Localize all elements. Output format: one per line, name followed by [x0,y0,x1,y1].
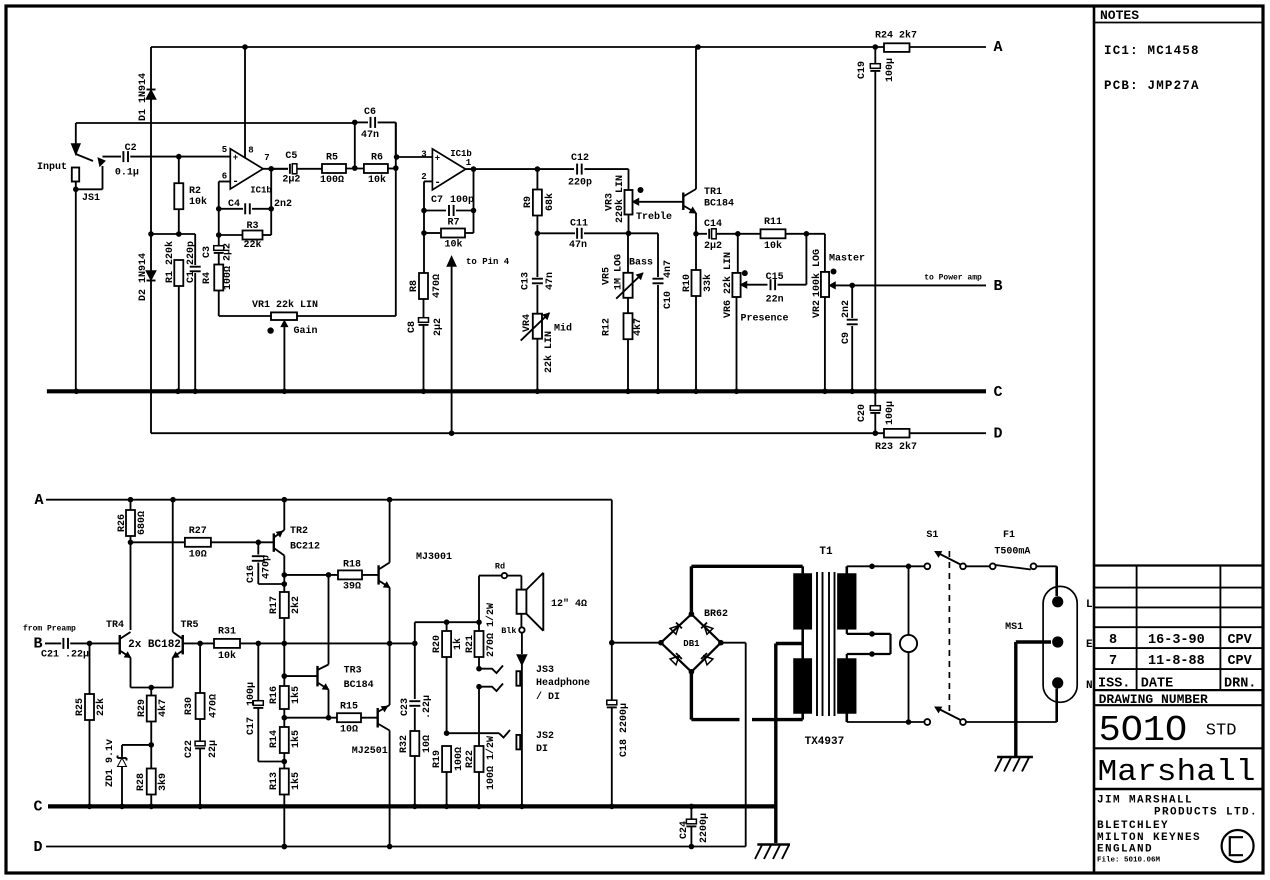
row R18 driver [284,572,338,578]
svg-text:R1 220k: R1 220k [164,241,176,283]
svg-text:47n: 47n [569,240,587,251]
svg-text:TX4937: TX4937 [805,736,845,748]
riser to speaker row [415,619,482,643]
svg-text:C23: C23 [400,698,411,716]
wire bridge right to rail D [718,640,746,847]
svg-text:NOTES: NOTES [1100,8,1139,23]
capacitor C15 22n [766,234,807,306]
svg-text:10k: 10k [764,240,782,252]
svg-text:S1: S1 [926,530,938,541]
svg-text:TR4: TR4 [106,620,124,631]
secondary centre tap to ground [776,644,803,844]
svg-text:VR5: VR5 [602,267,613,285]
revision header row [1098,677,1256,692]
svg-text:10k: 10k [444,239,462,251]
capacitor C18 2200u [607,500,630,807]
svg-text:R6: R6 [371,153,383,164]
connector Blk [501,614,524,654]
wire bridge left [612,640,664,646]
wire VR1 right to R6 node [297,122,396,316]
svg-text:100Ω: 100Ω [320,175,344,186]
svg-text:CPV: CPV [1227,633,1252,648]
svg-text:R24 2k7: R24 2k7 [875,30,917,42]
svg-text:.22μ: .22μ [422,695,433,719]
svg-text:8: 8 [1109,633,1117,648]
wire op-amp1 output [263,166,288,172]
potentiometer VR3 220k LIN treble [604,175,684,223]
svg-text:R5: R5 [326,153,338,164]
svg-text:BLETCHLEY: BLETCHLEY [1097,820,1169,832]
emitter join TR4 TR5 [131,685,173,691]
svg-text:R32: R32 [399,735,410,753]
svg-text:2μ2: 2μ2 [433,318,444,336]
svg-text:2μ2: 2μ2 [704,241,722,252]
svg-text:22k: 22k [243,239,261,251]
svg-text:47n: 47n [545,272,556,290]
capacitor C21 .22u [41,638,120,661]
potentiometer VR1 22k LIN gain [252,299,318,391]
svg-text:D: D [33,839,42,856]
svg-text:68k: 68k [544,193,556,211]
rail D upper [151,426,1003,443]
capacitor C7 100p [424,195,474,216]
svg-text:PCB: JMP27A: PCB: JMP27A [1104,79,1200,93]
svg-text:ZD1 9.1v: ZD1 9.1v [105,739,116,787]
svg-text:33k: 33k [702,274,714,292]
svg-text:C9: C9 [841,332,852,344]
svg-text:5O1O: 5O1O [1099,710,1188,751]
title column divider [1093,6,1096,873]
svg-text:C14: C14 [704,219,722,230]
junction dots rail A [242,44,878,50]
svg-text:to Pin 4: to Pin 4 [466,257,510,267]
row JS2 DI [444,730,510,738]
pilot lamp [900,566,917,722]
row R15 [284,715,337,721]
svg-text:Marshall: Marshall [1098,755,1256,790]
transformer T1 label [819,546,833,558]
capacitor C11 47n [569,219,658,252]
resistor R21 270R half watt [465,603,497,669]
input jack JS1 [72,123,105,192]
notes box [1094,8,1263,23]
resistor R29 4k7 [137,688,169,748]
potentiometer VR6 22k LIN presence [722,234,788,391]
svg-text:VR1 22k LIN: VR1 22k LIN [252,299,318,311]
svg-text:4k7: 4k7 [157,699,169,717]
svg-text:R3: R3 [246,221,258,232]
resistor R25 22k [75,643,107,806]
ground symbol centre tap [755,845,790,860]
JS3 contact 2 [476,684,503,692]
capacitor C13 47n [521,233,556,313]
svg-text:R4: R4 [202,272,213,284]
svg-text:C21: C21 [41,650,59,661]
wire C12 to VR3 [584,169,628,190]
svg-text:R22: R22 [465,750,476,768]
svg-text:C16: C16 [246,565,257,583]
svg-text:TR3: TR3 [344,666,362,677]
resistor R12 4k7 [602,298,645,392]
svg-text:STD: STD [1206,722,1237,741]
op-amp IC1a [222,145,272,196]
diode D1 1N914 [138,73,155,121]
resistor R31 10k [214,627,284,663]
wire pin8 to rail A [244,47,246,158]
svg-text:C17: C17 [246,717,257,735]
svg-text:C6: C6 [364,107,376,118]
rail A lower [34,492,611,509]
arrow to pin 4 [448,257,510,433]
svg-text:+: + [233,153,238,163]
svg-text:DATE: DATE [1141,677,1173,692]
capacitor C24 2200u [679,806,710,846]
transistor TR3 BC184 [284,665,373,718]
wire output feedback riser [471,169,477,233]
svg-text:MILTON KEYNES: MILTON KEYNES [1097,832,1201,844]
zener ZD1 9.1v [105,739,151,806]
svg-text:22k: 22k [95,698,107,716]
svg-text:R2: R2 [189,186,201,197]
svg-text:R27: R27 [189,526,207,537]
svg-text:R31: R31 [218,627,236,638]
capacitor C16 470p [246,542,287,587]
capacitor C8 2u2 [407,318,444,392]
transformer T1 secondary windings [794,566,811,719]
wire input top link [76,122,355,124]
revision row 7 [1109,654,1253,669]
wire pin6 feedback left [216,182,230,247]
svg-text:5: 5 [222,145,227,155]
resistor R30 470R [184,643,220,741]
capacitor C14 2u2 [704,219,761,252]
label TX4937 [805,736,845,748]
wire R4 to VR1 [219,315,271,317]
capacitor C17 100u [246,682,284,762]
primary top wire [847,564,925,570]
svg-text:C11: C11 [570,219,588,230]
svg-text:100Ω: 100Ω [454,747,465,771]
svg-text:C: C [993,384,1002,401]
resistor R3 22k [219,221,271,251]
resistor R26 680R [117,500,148,543]
resistor R8 470R [409,273,443,318]
svg-text:T500mA: T500mA [994,547,1030,558]
resistor R27 10R [131,526,274,561]
svg-text:C13: C13 [521,272,532,290]
svg-text:BC184: BC184 [704,199,734,210]
wire +in IC1b [394,154,433,160]
svg-text:C8: C8 [407,321,418,333]
svg-text:Master: Master [829,254,865,265]
svg-text:.22μ: .22μ [65,650,89,661]
svg-text:JS2: JS2 [536,731,554,742]
svg-text:D: D [993,426,1002,443]
capacitor C6 47n [355,107,396,157]
svg-text:Bass: Bass [629,258,653,269]
svg-text:D2 1N914: D2 1N914 [138,253,149,301]
transistor MJ3001 [379,500,452,643]
svg-text:DI: DI [536,744,548,755]
svg-text:10k: 10k [368,174,386,186]
svg-text:4n7: 4n7 [663,260,674,278]
svg-text:-: - [232,176,239,188]
svg-text:2x BC182: 2x BC182 [128,639,181,651]
svg-text:22k LIN: 22k LIN [543,331,555,373]
svg-text:100μ: 100μ [885,401,896,425]
long tail pair input [23,625,76,653]
zobel branch [414,643,416,699]
resistor R9 68k [523,169,556,233]
svg-text:MJ3001: MJ3001 [416,552,452,563]
resistor R16 1k5 [269,643,302,717]
svg-text:ISS.: ISS. [1098,677,1130,692]
svg-text:L: L [1086,599,1093,611]
rail C upper dots [74,389,879,395]
bridge diode marks [670,623,713,665]
note IC1 [1104,44,1200,58]
copyright mark [1222,830,1254,862]
potentiometer VR5 1M LOG bass [602,233,653,298]
svg-text:ENGLAND: ENGLAND [1097,844,1153,856]
connector Rd [495,562,522,590]
resistor R10 33k [682,234,714,391]
svg-text:VR3: VR3 [604,193,615,211]
node TR1 emitter [693,231,707,237]
svg-text:0.1μ: 0.1μ [115,168,139,179]
svg-text:PRODUCTS LTD.: PRODUCTS LTD. [1154,807,1258,819]
wire speaker top [479,576,502,623]
svg-text:R18: R18 [343,560,361,571]
svg-text:IC1: MC1458: IC1: MC1458 [1104,44,1200,58]
svg-text:R14: R14 [269,730,280,748]
svg-text:R19: R19 [432,750,443,768]
svg-text:JS3: JS3 [536,665,554,676]
svg-text:1k5: 1k5 [290,772,302,790]
svg-text:C19: C19 [857,61,868,79]
svg-text:MJ2501: MJ2501 [352,746,388,757]
svg-text:R28: R28 [136,773,147,791]
svg-text:8: 8 [248,146,253,156]
svg-text:680Ω: 680Ω [137,511,148,535]
wire IC1b output [466,166,541,172]
fuse F1 T500mA [966,530,1057,596]
revision row 8 [1109,633,1253,648]
capacitor C20 100u [857,391,896,436]
jack JS2 DI [516,731,554,755]
resistor R7 10k [424,218,474,251]
svg-text:to Power amp: to Power amp [924,274,982,283]
svg-text:E: E [1086,639,1093,651]
speaker 12 inch 4 ohm [517,573,587,631]
resistor R1 220k [164,241,183,391]
svg-text:2n2: 2n2 [841,300,852,318]
transistor TR5 BC182 [128,500,198,688]
svg-text:B: B [993,278,1002,295]
capacitor C22 22u [184,740,219,806]
svg-text:R23 2k7: R23 2k7 [875,441,917,453]
JS3 contact 1 [476,666,503,674]
svg-text:-: - [434,177,441,189]
svg-text:1: 1 [466,158,472,168]
svg-text:10k: 10k [218,650,236,662]
svg-text:from Preamp: from Preamp [23,625,76,634]
capacitor C19 100u [857,47,896,391]
svg-text:CPV: CPV [1227,654,1252,669]
svg-text:F1: F1 [1003,530,1015,541]
diode D2 1N914 [138,234,155,433]
svg-text:3: 3 [421,150,426,160]
svg-text:Headphone: Headphone [536,677,590,689]
svg-text:File: 5010.06M: File: 5010.06M [1097,857,1161,865]
resistor R23 2k7 in rail D [875,429,917,453]
svg-text:12" 4Ω: 12" 4Ω [551,598,587,610]
svg-text:MS1: MS1 [1005,622,1023,633]
svg-text:C18 2200μ: C18 2200μ [619,703,630,757]
wire C2 to op-amp [130,154,230,160]
svg-text:/ DI: / DI [536,691,560,703]
switch S1 [924,530,966,725]
transistor MJ2501 [352,643,390,846]
svg-text:10Ω: 10Ω [189,550,207,561]
bridge rectifier DB1 BR62 [661,609,728,672]
svg-text:R15: R15 [340,702,358,713]
svg-text:R13: R13 [269,772,280,790]
rail C lower dots [87,804,695,810]
svg-text:470p: 470p [262,555,273,579]
neutral wire to MS1 [966,689,1057,723]
address block [1097,795,1258,856]
ground wire input jack [75,189,77,391]
earth wire MS1 [1016,642,1051,756]
transistor TR1 BC184 [683,47,734,234]
svg-text:10Ω: 10Ω [340,725,358,736]
wire D1 branch vertical [150,47,152,234]
resistor R14 1k5 [269,715,302,764]
resistor R32 10R [399,731,433,806]
capacitor C4 2n2 [219,199,292,214]
svg-text:100μ: 100μ [885,58,896,82]
svg-text:BR62: BR62 [704,609,728,620]
svg-text:R25: R25 [75,698,86,716]
svg-text:BC212: BC212 [290,542,320,553]
svg-text:A: A [993,39,1002,56]
svg-text:R11: R11 [764,217,782,228]
svg-text:R26: R26 [117,514,128,532]
svg-text:C4: C4 [228,199,240,210]
svg-text:4k7: 4k7 [632,318,644,336]
branch C17 [255,641,261,700]
svg-text:2200μ: 2200μ [699,813,710,843]
label JS1 [82,193,100,204]
wire input to C2 [103,156,122,158]
svg-text:C: C [33,799,42,816]
rail C upper [47,384,1003,401]
svg-text:270Ω 1/2W: 270Ω 1/2W [485,603,497,657]
svg-text:DRN.: DRN. [1224,677,1256,692]
capacitor C9 2n2 [841,285,858,391]
svg-text:R29: R29 [137,699,148,717]
svg-text:220k LIN: 220k LIN [614,175,626,223]
svg-text:16-3-90: 16-3-90 [1148,633,1205,648]
capacitor C5 2u2 [271,151,322,186]
svg-text:R10: R10 [682,274,693,292]
resistor R4 100R [202,253,234,316]
resistor R22 100R half watt [465,687,497,807]
resistor R11 10k [761,217,825,252]
capacitor C23 .22u [400,695,433,731]
potentiometer VR2 100k LOG master [811,249,865,391]
node row R1 C1 [148,231,195,237]
svg-text:D1 1N914: D1 1N914 [138,73,149,121]
svg-text:JS1: JS1 [82,193,100,204]
rail A top [151,39,1003,56]
svg-text:47n: 47n [361,130,379,141]
svg-text:7: 7 [1109,654,1117,669]
svg-text:R30: R30 [184,697,195,715]
switch gang dashed line [948,551,950,713]
svg-text:100p: 100p [450,195,474,206]
svg-text:C10: C10 [663,291,674,309]
wire bridge bottom AC [689,669,803,720]
svg-text:+: + [435,154,440,164]
svg-text:10k: 10k [189,196,207,208]
svg-text:TR2: TR2 [290,526,308,537]
resistor R5 100R [320,153,363,187]
resistor R28 3k9 [136,745,169,807]
main VAS line [284,641,417,647]
resistor R19 100R [432,746,465,806]
svg-text:C20: C20 [857,404,868,422]
primary series link [847,629,891,659]
potentiometer VR4 22k LIN mid [521,313,572,391]
file name [1097,857,1161,865]
svg-text:IC1b: IC1b [250,186,272,196]
svg-text:Mid: Mid [554,323,572,335]
svg-text:C15: C15 [766,272,784,283]
svg-text:2μ2: 2μ2 [223,243,234,261]
svg-text:3k9: 3k9 [157,773,169,791]
Marshall logo [1094,755,1263,790]
svg-text:C1 220p: C1 220p [186,241,197,283]
transistor TR4 BC182 [106,620,131,688]
wire output feedback right [268,169,274,235]
svg-text:220p: 220p [568,178,592,189]
svg-text:100Ω 1/2W: 100Ω 1/2W [485,736,497,790]
node R26 bottom [128,540,134,631]
svg-text:2μ2: 2μ2 [282,175,300,186]
capacitor C10 4n7 [653,233,675,391]
svg-text:22n: 22n [766,295,784,306]
svg-text:11-8-88: 11-8-88 [1148,654,1205,669]
primary bottom wire [847,719,925,725]
svg-text:1k5: 1k5 [290,730,302,748]
svg-text:100μ: 100μ [246,682,257,706]
resistor R17 2k2 [269,592,302,646]
base wire TR5 [183,641,214,647]
svg-text:TR1: TR1 [704,187,722,198]
capacitor C1 220p [186,234,201,391]
wire VR3 bottom [626,215,632,237]
svg-text:100Ω: 100Ω [223,266,234,290]
drawing number 5010 STD [1094,710,1263,751]
capacitor C12 220p [537,153,592,189]
label Input [37,162,67,173]
svg-text:R21: R21 [465,635,476,653]
svg-text:R20: R20 [432,635,443,653]
wire bridge top AC [689,566,803,617]
rail C lower [33,799,775,816]
